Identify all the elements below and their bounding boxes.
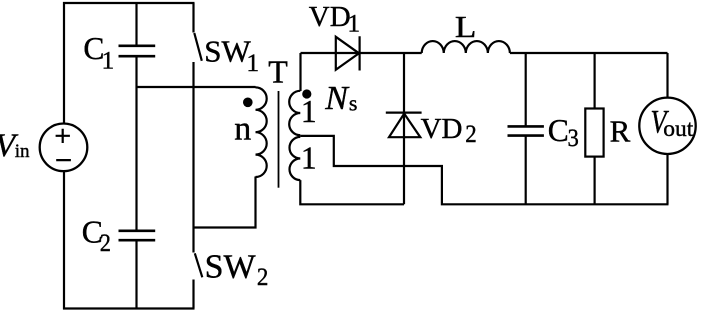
svg-text:n: n [234, 110, 251, 147]
svg-text:2: 2 [465, 119, 477, 148]
wire left rail [63, 2, 65, 310]
label secondary turns 1 upper [301, 94, 317, 129]
label C1 [83, 31, 114, 75]
svg-text:T: T [268, 53, 288, 89]
capacitor C1 [119, 46, 156, 56]
svg-text:C: C [548, 113, 569, 148]
svg-text:2: 2 [100, 228, 111, 257]
label Vout [651, 104, 694, 142]
wire bottom rail input [63, 307, 195, 309]
switch SW2 [195, 253, 203, 277]
capacitor C2 [119, 231, 156, 240]
label R [610, 114, 631, 149]
label L [455, 9, 477, 44]
voltage source Vin [40, 124, 88, 172]
svg-text:3: 3 [568, 123, 579, 152]
svg-text:VD: VD [309, 1, 351, 33]
label C3 [548, 113, 579, 152]
label Ns [324, 80, 357, 117]
diode VD1 [336, 36, 360, 70]
svg-text:SW: SW [204, 33, 251, 68]
wire secondary bottom lead to VD2 anode [300, 180, 404, 204]
voltmeter Vout [639, 53, 695, 204]
capacitor C3 [508, 53, 544, 204]
svg-text:2: 2 [257, 262, 269, 291]
svg-text:s: s [349, 90, 358, 115]
label Vin [0, 128, 30, 164]
svg-text:VD: VD [421, 113, 463, 145]
svg-text:R: R [610, 114, 631, 149]
switch SW1 [194, 33, 202, 61]
svg-text:1: 1 [301, 140, 317, 175]
label SW2 [205, 248, 269, 291]
inductor L [422, 41, 510, 53]
svg-text:SW: SW [205, 248, 257, 285]
svg-text:N: N [324, 80, 350, 117]
svg-text:out: out [663, 116, 694, 142]
transformer core [278, 91, 280, 188]
wire top rail input [63, 2, 195, 4]
node primary dot [243, 98, 253, 108]
svg-text:1: 1 [301, 94, 317, 129]
wire primary bottom to midpoint rail [193, 177, 256, 228]
label VD2 [421, 113, 477, 148]
label C2 [82, 215, 111, 257]
label n [234, 110, 251, 147]
label secondary turns 1 lower [301, 140, 317, 175]
resistor R [585, 53, 603, 204]
label SW1 [204, 33, 259, 77]
svg-text:1: 1 [246, 48, 259, 77]
wire C1-C2 rail [135, 3, 137, 309]
wire half-bridge midpoint to primary top [137, 86, 256, 88]
diode VD2 [386, 53, 422, 204]
node secondary dot [302, 89, 311, 98]
transformer secondary winding upper half [289, 91, 300, 135]
svg-text:L: L [455, 9, 477, 44]
svg-text:in: in [15, 141, 30, 162]
wire switch rail [192, 3, 194, 309]
svg-text:1: 1 [102, 46, 115, 75]
wire secondary centre tap step to output return [300, 136, 668, 204]
wire rectified top rail [301, 52, 668, 54]
transformer primary winding n [256, 87, 267, 177]
transformer secondary winding lower half [290, 137, 301, 180]
svg-text:1: 1 [347, 8, 360, 37]
label VD1 [309, 1, 360, 37]
label T [268, 53, 288, 89]
wire secondary top lead [299, 53, 301, 91]
